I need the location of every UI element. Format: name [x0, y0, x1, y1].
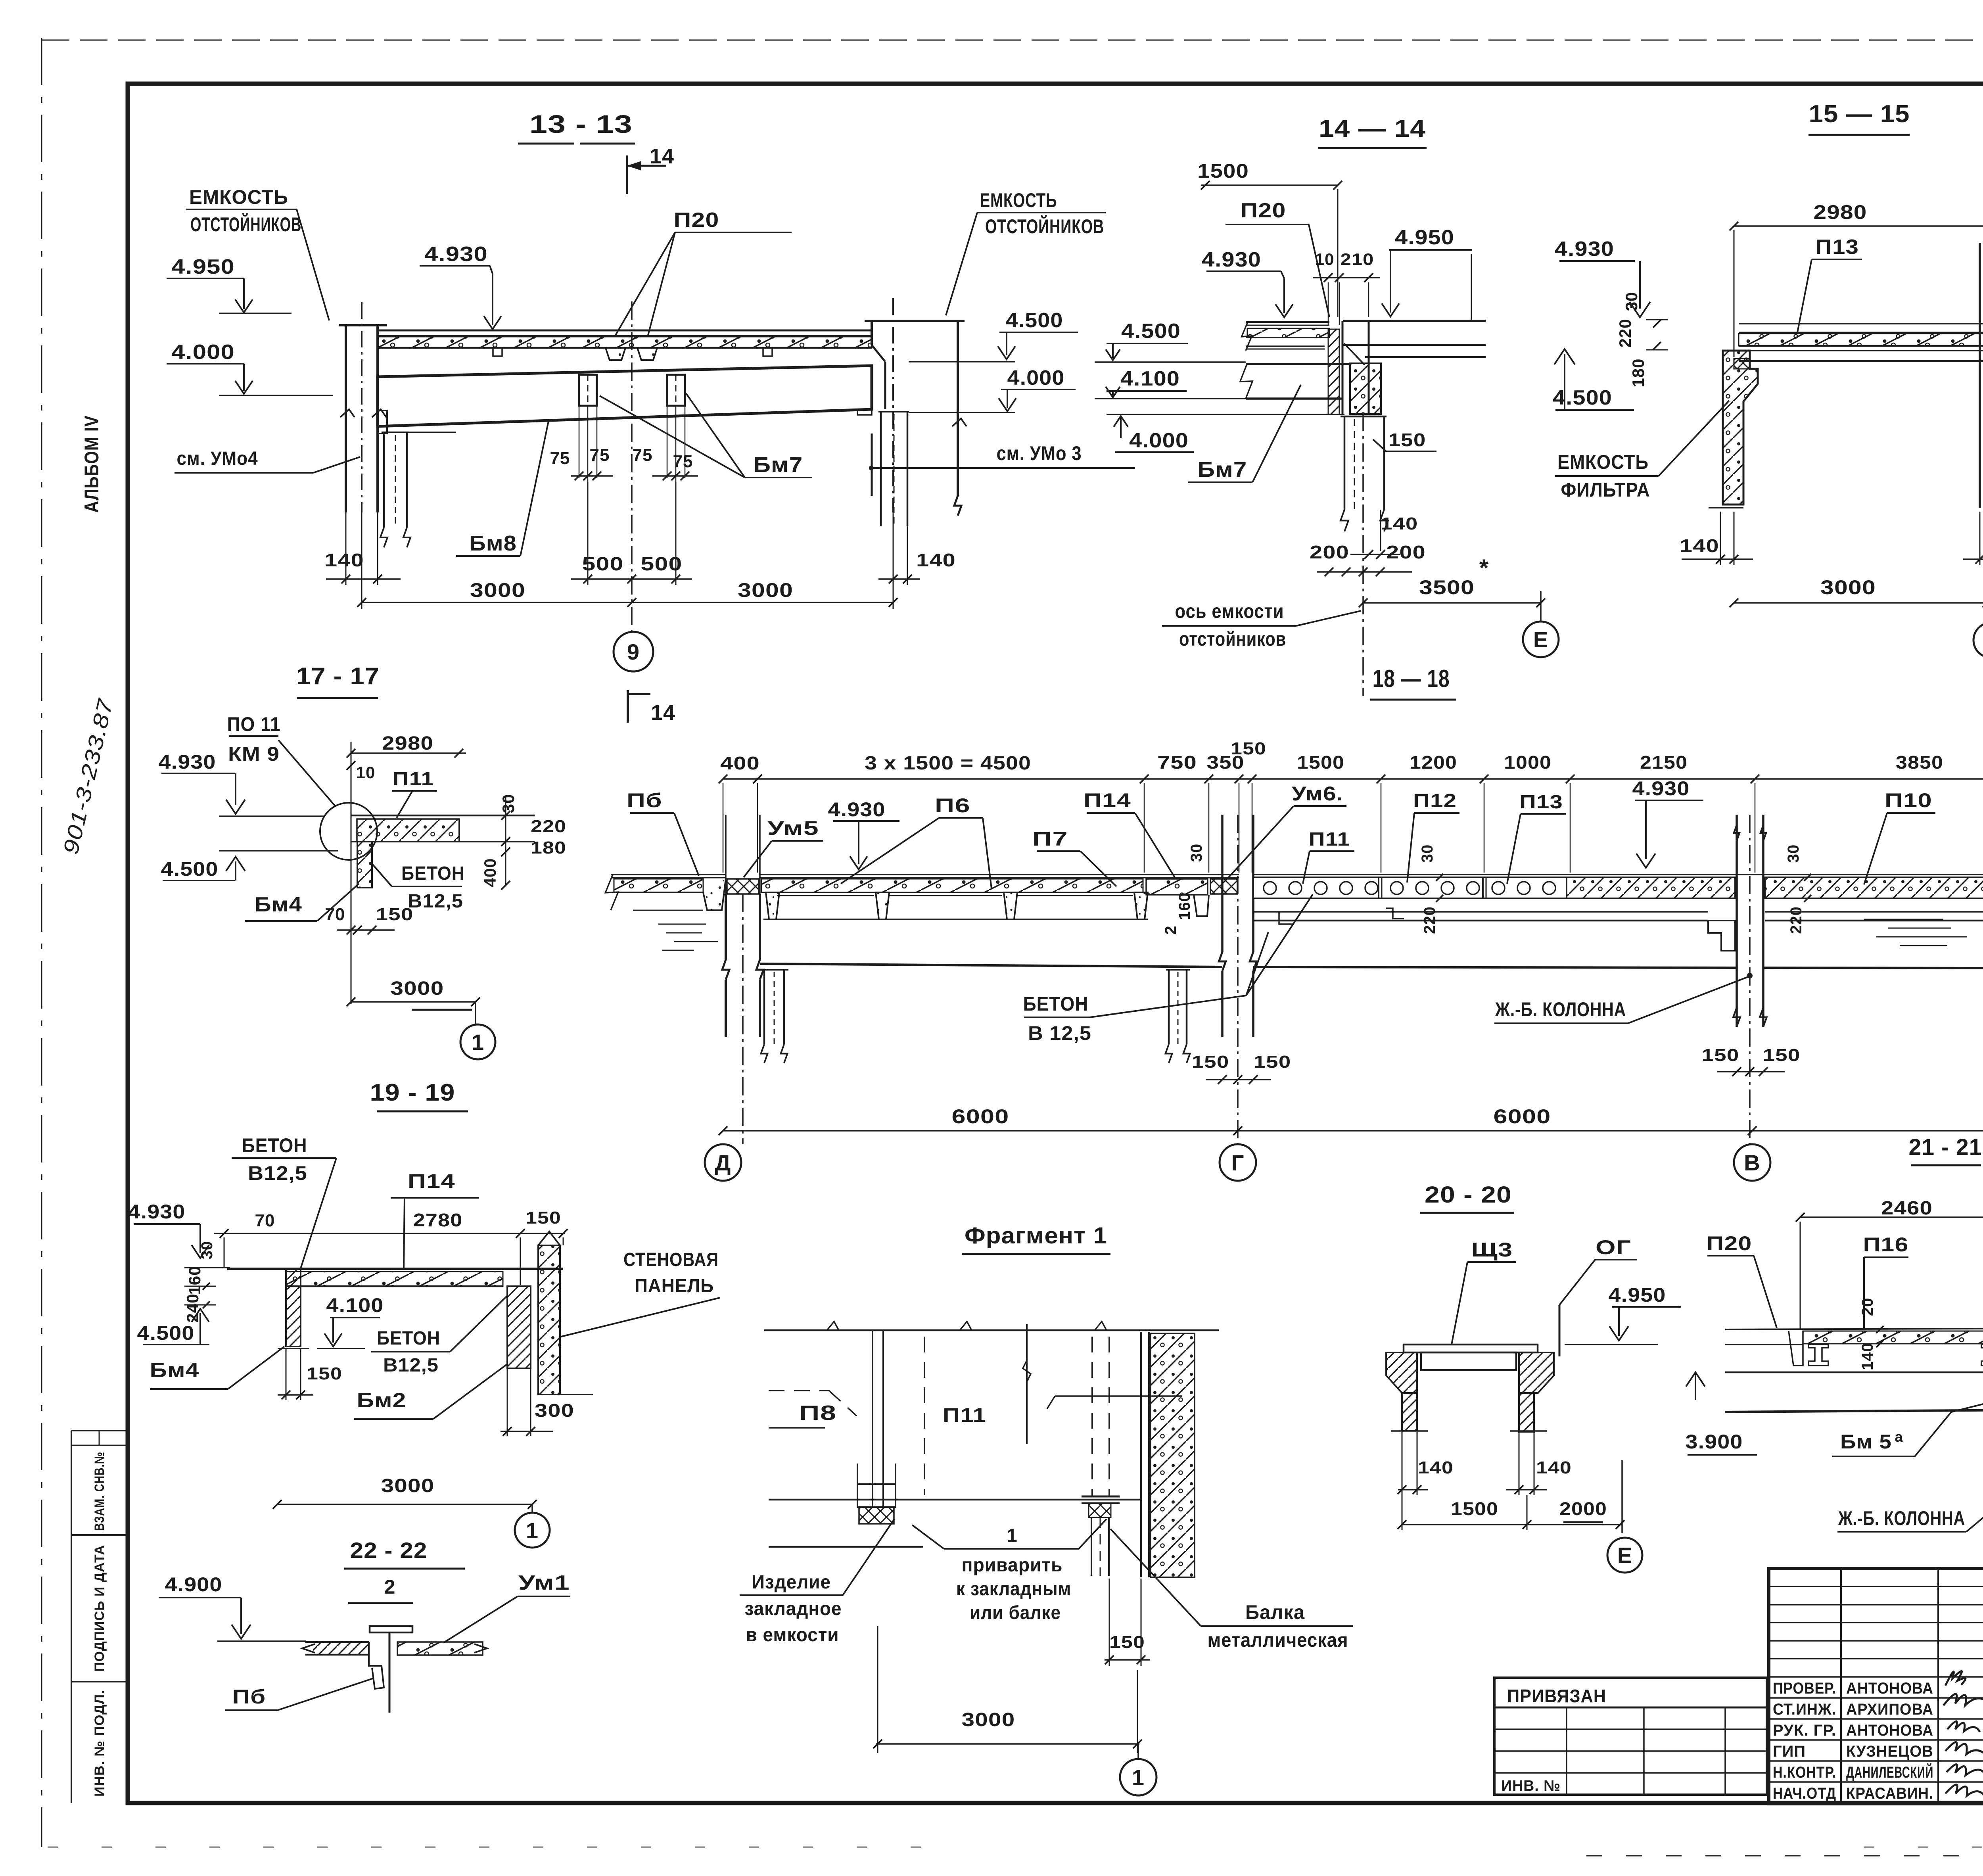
svg-text:АНТОНОВА: АНТОНОВА	[1846, 1680, 1933, 1697]
svg-text:160: 160	[185, 1266, 204, 1295]
svg-text:4.930: 4.930	[828, 798, 886, 821]
hanging posts Бм7	[579, 375, 597, 406]
svg-text:4.950: 4.950	[1609, 1284, 1666, 1306]
svg-text:металлическая: металлическая	[1208, 1629, 1348, 1651]
svg-text:14: 14	[651, 701, 675, 725]
svg-text:3000: 3000	[391, 978, 444, 999]
svg-text:4.950: 4.950	[1395, 226, 1454, 249]
стеновая панель wall sec19	[538, 1245, 560, 1395]
svg-text:4.930: 4.930	[1202, 248, 1261, 271]
column below beam right	[878, 411, 909, 412]
tee plate sec22	[370, 1626, 412, 1632]
svg-text:4.500: 4.500	[137, 1322, 195, 1344]
elevation 4.000 sec14	[1114, 416, 1128, 427]
slab with П20 plates	[378, 330, 872, 332]
tray left leg sec20	[1386, 1352, 1417, 1393]
svg-text:ось емкости: ось емкости	[1175, 600, 1284, 622]
svg-text:Н.КОНТР.: Н.КОНТР.	[1773, 1764, 1836, 1781]
svg-text:30: 30	[499, 794, 518, 813]
axis емкости dash-dot sec14	[1362, 413, 1364, 696]
svg-text:4.930: 4.930	[128, 1201, 186, 1223]
column В capital	[1708, 921, 1735, 951]
small clips under slab	[493, 348, 502, 356]
svg-text:3000: 3000	[962, 1709, 1015, 1730]
svg-text:4.100: 4.100	[326, 1294, 384, 1316]
column В sec18	[1736, 815, 1738, 1027]
svg-text:РУК. ГР.: РУК. ГР.	[1773, 1722, 1836, 1739]
wall right sec15	[1979, 243, 1981, 508]
svg-text:2: 2	[1162, 925, 1179, 934]
fragment left vertical lines	[872, 1330, 873, 1507]
svg-text:Щ3: Щ3	[1471, 1239, 1513, 1261]
grid bubble В sec18	[1734, 1144, 1770, 1181]
grid bubble 1 sec17	[475, 1002, 476, 1024]
column below beam left	[382, 432, 409, 433]
svg-text:140: 140	[1381, 514, 1418, 533]
svg-text:4.930: 4.930	[1632, 777, 1690, 800]
svg-text:3000: 3000	[738, 579, 793, 601]
svg-text:30: 30	[1622, 292, 1641, 311]
svg-text:150: 150	[1388, 430, 1426, 450]
svg-text:Бм2: Бм2	[357, 1389, 407, 1412]
pier sec17	[357, 842, 372, 888]
left slab П6 sec18	[611, 874, 726, 875]
level line 4.500 sec17	[219, 850, 338, 852]
svg-text:Изделие: Изделие	[752, 1572, 831, 1593]
svg-text:ЕМКОСТЬ: ЕМКОСТЬ	[1557, 451, 1649, 473]
elevation 4.100 sec21	[1880, 1406, 1881, 1408]
svg-text:20 - 20: 20 - 20	[1425, 1182, 1512, 1208]
svg-text:П16: П16	[1863, 1233, 1909, 1256]
sheet outer edge top	[42, 40, 1983, 41]
svg-text:10: 10	[356, 763, 376, 782]
tray right leg sec20	[1519, 1352, 1554, 1393]
slab sec19	[227, 1268, 563, 1270]
svg-text:1500: 1500	[1297, 752, 1344, 773]
grid bubble Е sec20	[1621, 1460, 1623, 1533]
fragment П8 boundary dashed	[769, 1390, 829, 1391]
svg-text:ДАНИЛЕВСКИЙ: ДАНИЛЕВСКИЙ	[1846, 1763, 1933, 1781]
svg-text:П13: П13	[1815, 236, 1859, 259]
svg-text:2980: 2980	[1814, 201, 1867, 223]
svg-text:БЕТОН: БЕТОН	[401, 863, 465, 884]
svg-text:3000: 3000	[470, 579, 525, 601]
svg-text:2460: 2460	[1881, 1198, 1933, 1219]
svg-text:30: 30	[1419, 844, 1436, 863]
svg-text:400: 400	[481, 858, 499, 887]
svg-text:2780: 2780	[413, 1210, 463, 1230]
tray top plate sec20	[1404, 1345, 1538, 1352]
svg-text:см. УМо 3: см. УМо 3	[997, 442, 1082, 464]
svg-text:БЕТОН: БЕТОН	[377, 1328, 440, 1349]
svg-text:КРАСАВИН.: КРАСАВИН.	[1846, 1785, 1933, 1802]
detail circle sec17	[320, 803, 377, 860]
svg-text:1: 1	[1132, 1765, 1145, 1790]
svg-text:240: 240	[183, 1293, 202, 1322]
axis line section 13	[631, 301, 633, 631]
svg-text:или балке: или балке	[970, 1602, 1061, 1623]
svg-text:4.950: 4.950	[171, 255, 235, 278]
УМ5 monolith xhatch	[727, 879, 759, 894]
svg-text:22 - 22: 22 - 22	[350, 1538, 428, 1563]
cut mark 14 top	[626, 155, 628, 194]
support block xhatch sec15	[1734, 359, 1750, 369]
svg-text:ПО 11: ПО 11	[227, 713, 281, 735]
svg-text:П13: П13	[1519, 792, 1563, 813]
svg-text:ПОДПИСЬ И ДАТА: ПОДПИСЬ И ДАТА	[92, 1545, 107, 1672]
svg-text:1000: 1000	[1504, 752, 1551, 773]
slab right sec22	[397, 1642, 483, 1655]
ribbed slabs П6 П7 sec18	[760, 874, 1239, 875]
svg-text:2: 2	[384, 1576, 396, 1598]
fragment mid verticals	[1026, 1324, 1028, 1444]
wall sec14 hatched strip	[1328, 329, 1339, 414]
line under beam	[382, 432, 456, 433]
svg-text:Ум1: Ум1	[518, 1571, 570, 1594]
svg-text:Ж.-Б. КОЛОННА: Ж.-Б. КОЛОННА	[1495, 998, 1626, 1020]
cut mark 14 bottom	[627, 690, 629, 723]
svg-text:Бм4: Бм4	[150, 1359, 199, 1382]
svg-text:70: 70	[255, 1211, 275, 1230]
svg-text:150: 150	[525, 1208, 561, 1228]
svg-text:Фрагмент 1: Фрагмент 1	[965, 1223, 1107, 1249]
svg-text:10: 10	[1315, 250, 1335, 269]
svg-text:150: 150	[307, 1364, 342, 1383]
svg-text:200: 200	[1310, 542, 1349, 562]
left wall sec19	[286, 1269, 301, 1347]
УМ6 monolith xhatch sec18	[1210, 879, 1237, 894]
fragment embedded plate left	[857, 1484, 896, 1507]
svg-text:П7: П7	[1032, 828, 1068, 850]
svg-text:Г: Г	[1231, 1150, 1245, 1175]
elevation 3.900 sec21	[1686, 1372, 1705, 1387]
svg-text:1500: 1500	[1451, 1498, 1498, 1519]
svg-text:СТ.ИНЖ.: СТ.ИНЖ.	[1773, 1701, 1836, 1718]
svg-text:ЕМКОСТЬ: ЕМКОСТЬ	[980, 189, 1057, 211]
svg-text:2980: 2980	[382, 733, 433, 754]
svg-text:НАЧ.ОТД: НАЧ.ОТД	[1773, 1785, 1836, 1802]
svg-text:В12,5: В12,5	[383, 1355, 439, 1376]
svg-text:ГИП: ГИП	[1773, 1743, 1806, 1760]
svg-text:КУЗНЕЦОВ: КУЗНЕЦОВ	[1846, 1743, 1933, 1760]
svg-text:Д: Д	[715, 1150, 731, 1175]
svg-text:6000: 6000	[952, 1105, 1009, 1128]
svg-text:Балка: Балка	[1245, 1601, 1305, 1623]
grid bubble Г sec18	[1220, 1144, 1256, 1181]
svg-text:В 12,5: В 12,5	[1028, 1022, 1091, 1044]
svg-text:150: 150	[1109, 1632, 1145, 1652]
svg-text:70: 70	[325, 905, 345, 924]
svg-text:П11: П11	[1309, 829, 1350, 850]
svg-text:180: 180	[531, 838, 566, 857]
monolithic band П10 sec18	[1567, 877, 1735, 898]
sheet outer edge bottom	[48, 1847, 952, 1848]
svg-text:КМ 9: КМ 9	[228, 743, 280, 765]
svg-text:Ум6.: Ум6.	[1292, 783, 1343, 805]
signatures squiggles	[1945, 1671, 1966, 1686]
svg-text:ФИЛЬТРА: ФИЛЬТРА	[1561, 479, 1650, 501]
svg-text:П11: П11	[393, 769, 434, 790]
svg-text:Пб: Пб	[627, 789, 662, 811]
svg-text:150: 150	[376, 905, 414, 924]
water lines right sec18	[1864, 919, 1943, 920]
slab П20 sec14	[1246, 321, 1329, 323]
fragment mid horizontal line	[769, 1499, 1141, 1501]
wall right of tank	[865, 320, 965, 322]
concrete pier sec14	[1350, 363, 1381, 414]
svg-text:180: 180	[1629, 358, 1647, 387]
svg-text:13 - 13: 13 - 13	[529, 110, 633, 138]
svg-text:1500: 1500	[1197, 160, 1249, 182]
water lines left sec18	[658, 924, 706, 925]
svg-text:закладное: закладное	[745, 1598, 842, 1619]
hollow core П11 band sec18	[1253, 874, 1567, 875]
svg-text:в емкости: в емкости	[746, 1625, 839, 1646]
svg-text:П20: П20	[1241, 199, 1286, 222]
svg-text:18 — 18: 18 — 18	[1373, 665, 1450, 692]
svg-text:210: 210	[1341, 250, 1374, 269]
svg-text:750: 750	[1157, 752, 1197, 773]
svg-text:2000: 2000	[1559, 1498, 1607, 1519]
svg-text:4.500: 4.500	[161, 858, 219, 880]
svg-text:1: 1	[526, 1518, 539, 1543]
svg-text:30: 30	[198, 1241, 216, 1260]
svg-text:ПРОВЕР.: ПРОВЕР.	[1773, 1680, 1836, 1697]
slab soffit lines sec18	[777, 895, 874, 896]
svg-text:а: а	[1895, 1429, 1903, 1445]
svg-text:160: 160	[1176, 892, 1193, 920]
title block outer	[1769, 1569, 1983, 1804]
svg-text:3 x 1500 = 4500: 3 x 1500 = 4500	[865, 753, 1031, 774]
beam Бм8	[378, 366, 872, 426]
svg-text:4.930: 4.930	[159, 751, 216, 773]
bottom dimension 6000 row	[723, 1130, 1983, 1132]
svg-text:АНТОНОВА: АНТОНОВА	[1846, 1722, 1933, 1739]
svg-text:6000: 6000	[1494, 1105, 1551, 1128]
grid bubble 1 sec19	[531, 1504, 533, 1512]
svg-text:ИНВ. № ПОДЛ.: ИНВ. № ПОДЛ.	[92, 1690, 107, 1797]
svg-text:9: 9	[627, 639, 640, 664]
dimension 140 left	[345, 512, 347, 585]
beam Бм5а sec21	[1725, 1372, 1983, 1373]
beam lines under band sec18	[1253, 911, 1708, 913]
svg-text:75: 75	[550, 449, 570, 468]
svg-text:1: 1	[472, 1030, 484, 1055]
beam bottom line sec18	[760, 964, 1222, 967]
svg-text:АЛЬБОМ IV: АЛЬБОМ IV	[81, 415, 103, 513]
svg-text:П14: П14	[408, 1170, 455, 1192]
svg-text:4.500: 4.500	[1553, 386, 1612, 409]
svg-text:3.900: 3.900	[1686, 1431, 1743, 1453]
svg-text:4.930: 4.930	[424, 243, 488, 266]
svg-text:300: 300	[535, 1400, 574, 1421]
svg-text:4.000: 4.000	[1129, 429, 1189, 452]
svg-text:Ж.-Б. КОЛОННА: Ж.-Б. КОЛОННА	[1838, 1507, 1965, 1529]
svg-text:75: 75	[633, 445, 653, 465]
svg-text:1: 1	[1007, 1525, 1018, 1546]
fragment bubble 1	[1137, 1744, 1139, 1759]
svg-text:4.100: 4.100	[1120, 367, 1180, 390]
svg-text:Е: Е	[1533, 627, 1548, 652]
column below sec14	[1341, 416, 1387, 418]
wall left of tank	[339, 324, 387, 326]
svg-text:П20: П20	[1707, 1232, 1752, 1255]
svg-text:20: 20	[1859, 1298, 1876, 1316]
svg-text:СТЕНОВАЯ: СТЕНОВАЯ	[623, 1249, 719, 1270]
slab sec15	[1739, 323, 1983, 324]
svg-text:140: 140	[1680, 535, 1719, 556]
tank wall pier sec15	[1723, 351, 1758, 504]
П14 plate sec18	[1146, 879, 1208, 895]
svg-text:Бм7: Бм7	[1198, 458, 1247, 481]
column Г sec18	[1221, 815, 1224, 952]
П20 ribs at joint	[606, 348, 625, 360]
svg-text:Ум5: Ум5	[767, 817, 819, 839]
wall axis Д sec18	[725, 815, 727, 894]
svg-text:П8: П8	[799, 1402, 837, 1425]
I-beam ribs sec21	[1808, 1345, 1828, 1366]
svg-text:30: 30	[1188, 844, 1205, 862]
svg-text:ОГ: ОГ	[1596, 1236, 1631, 1258]
margin stamp column	[71, 1431, 72, 1803]
svg-text:150: 150	[1763, 1045, 1801, 1065]
svg-text:75: 75	[590, 445, 610, 465]
svg-text:19 - 19: 19 - 19	[370, 1079, 455, 1106]
svg-text:ПАНЕЛЬ: ПАНЕЛЬ	[635, 1276, 714, 1297]
svg-text:4.500: 4.500	[1121, 320, 1181, 343]
svg-text:Бм8: Бм8	[469, 531, 517, 555]
pilaster under beam left of Г	[1166, 969, 1190, 971]
svg-text:П20: П20	[674, 209, 719, 232]
right wall sec19	[507, 1286, 531, 1368]
svg-text:220: 220	[1616, 318, 1634, 347]
svg-text:2150: 2150	[1640, 752, 1688, 773]
svg-text:14 — 14: 14 — 14	[1319, 115, 1426, 142]
svg-text:150: 150	[1192, 1052, 1229, 1072]
svg-text:БЕТОН: БЕТОН	[1023, 993, 1089, 1015]
svg-text:140: 140	[1859, 1343, 1876, 1370]
pilaster under beam at Д	[761, 969, 788, 971]
svg-text:4.000: 4.000	[171, 341, 235, 364]
svg-text:П12: П12	[1413, 790, 1457, 811]
svg-text:*: *	[1479, 554, 1489, 581]
svg-text:4.000: 4.000	[1007, 366, 1065, 389]
svg-text:220: 220	[531, 817, 566, 836]
svg-text:П11: П11	[943, 1404, 986, 1426]
svg-text:150: 150	[1231, 739, 1266, 758]
top dimension row sec18	[723, 778, 1983, 780]
slab sec17	[351, 815, 535, 817]
svg-text:4.500: 4.500	[1006, 309, 1063, 332]
svg-text:200: 200	[1386, 542, 1426, 562]
slab band sec21	[1725, 1327, 1983, 1329]
svg-text:Бм 5: Бм 5	[1840, 1431, 1892, 1453]
sheet outer edge left	[41, 38, 42, 1847]
svg-text:17 - 17: 17 - 17	[296, 663, 380, 689]
svg-text:140: 140	[1536, 1458, 1572, 1477]
grid bubble 9	[614, 632, 653, 671]
fragment dashed pair right	[1091, 1337, 1093, 1496]
svg-text:4.930: 4.930	[1555, 238, 1614, 261]
svg-text:1200: 1200	[1410, 752, 1457, 773]
title block staff grid	[1769, 1586, 1983, 1587]
svg-text:АРХИПОВА: АРХИПОВА	[1846, 1701, 1933, 1718]
fragment wall right	[1140, 1332, 1142, 1577]
tank wall cap sec14	[1343, 320, 1486, 322]
svg-text:30: 30	[1785, 844, 1802, 863]
svg-text:ПРИВЯЗАН: ПРИВЯЗАН	[1507, 1686, 1606, 1706]
svg-text:150: 150	[1702, 1045, 1739, 1065]
svg-text:Бм4: Бм4	[255, 893, 302, 916]
svg-text:ВЗАМ. СНВ.№: ВЗАМ. СНВ.№	[92, 1452, 107, 1531]
svg-text:3000: 3000	[381, 1475, 435, 1496]
svg-text:В12,5: В12,5	[248, 1162, 307, 1184]
svg-text:140: 140	[1418, 1458, 1454, 1477]
svg-text:ИНВ. №: ИНВ. №	[1501, 1778, 1561, 1794]
beam sec14	[1246, 363, 1350, 365]
svg-text:ОТСТОЙНИКОВ: ОТСТОЙНИКОВ	[985, 215, 1104, 238]
svg-text:П10: П10	[1885, 789, 1932, 811]
svg-text:ОТСТОЙНИКОВ: ОТСТОЙНИКОВ	[190, 213, 301, 236]
svg-text:4.900: 4.900	[165, 1573, 222, 1596]
svg-text:400: 400	[720, 753, 760, 773]
fragment embedded plate right	[1082, 1496, 1120, 1498]
svg-text:14: 14	[650, 144, 674, 168]
svg-text:к закладным: к закладным	[956, 1579, 1071, 1600]
svg-text:3850: 3850	[1896, 752, 1943, 773]
small table ПРИВЯЗАН	[1494, 1678, 1767, 1795]
svg-text:ЕМКОСТЬ: ЕМКОСТЬ	[189, 186, 288, 208]
slab left sec22	[305, 1641, 369, 1643]
svg-text:В: В	[1744, 1150, 1760, 1175]
svg-text:140: 140	[916, 550, 956, 570]
svg-text:3000: 3000	[1820, 576, 1876, 598]
svg-text:отстойников: отстойников	[1179, 628, 1286, 650]
svg-text:21 - 21: 21 - 21	[1909, 1134, 1982, 1160]
axis dash-dot lines sec18	[742, 894, 744, 1144]
svg-text:БЕТОН: БЕТОН	[242, 1134, 307, 1157]
svg-text:220: 220	[1787, 906, 1805, 934]
svg-text:150: 150	[1254, 1052, 1291, 1072]
svg-text:П14: П14	[1084, 789, 1131, 811]
fragment lower horizontal line	[769, 1546, 923, 1548]
svg-text:3500: 3500	[1419, 576, 1475, 598]
svg-text:см. УМо4: см. УМо4	[177, 448, 258, 469]
svg-text:Бм7: Бм7	[754, 453, 803, 477]
grid bubble Д sec18	[705, 1144, 741, 1181]
svg-text:Пб: Пб	[232, 1686, 266, 1708]
svg-text:140: 140	[324, 550, 364, 570]
grid bubble Е sec14	[1540, 591, 1542, 621]
svg-text:15 — 15: 15 — 15	[1809, 100, 1910, 128]
svg-text:П6: П6	[935, 794, 970, 817]
svg-text:В12,5: В12,5	[408, 891, 463, 912]
rib edge left sec21	[1789, 1331, 1803, 1366]
svg-text:Е: Е	[1617, 1543, 1632, 1568]
fragment top slab line	[764, 1329, 1219, 1331]
svg-text:приварить: приварить	[962, 1555, 1063, 1576]
stray mark bracket sec18 right	[1386, 908, 1404, 919]
